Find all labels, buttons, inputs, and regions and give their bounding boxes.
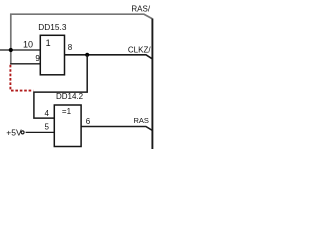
svg-text:RAS/: RAS/ (131, 4, 150, 13)
svg-text:1: 1 (46, 38, 51, 48)
svg-text:9: 9 (35, 54, 40, 63)
svg-text:8: 8 (68, 43, 73, 52)
svg-text:4: 4 (45, 109, 50, 118)
svg-text:DD14.2: DD14.2 (56, 92, 84, 101)
svg-text:10: 10 (23, 40, 33, 50)
svg-text:+5V: +5V (6, 128, 22, 138)
svg-text:=1: =1 (62, 107, 72, 116)
svg-text:DD15.3: DD15.3 (38, 22, 67, 32)
svg-text:CLKZ/: CLKZ/ (128, 45, 151, 54)
svg-text:5: 5 (45, 123, 50, 132)
svg-text:RAS: RAS (134, 116, 149, 125)
svg-text:6: 6 (86, 117, 91, 126)
